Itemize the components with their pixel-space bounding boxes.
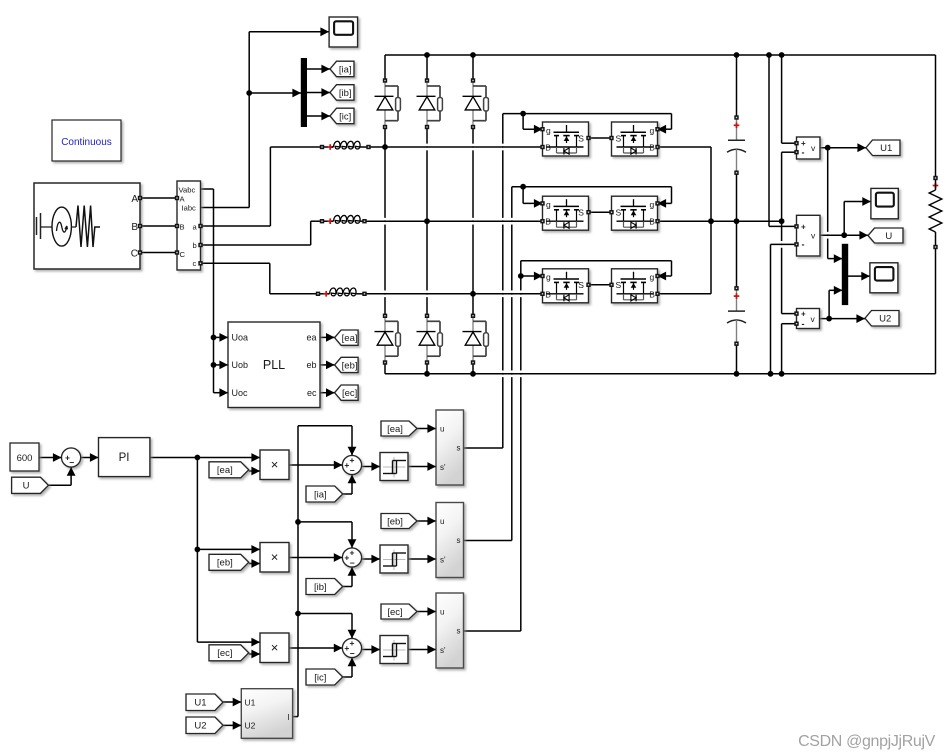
svg-text:U1: U1 (194, 698, 206, 709)
svg-text:+: + (344, 643, 349, 653)
svg-text:[eb]: [eb] (217, 558, 233, 569)
svg-text:s': s' (440, 463, 446, 472)
svg-text:[ec]: [ec] (387, 607, 402, 618)
svg-text:u: u (440, 608, 444, 617)
svg-text:×: × (271, 457, 279, 472)
svg-text:−: − (350, 466, 355, 476)
svg-text:+: + (350, 455, 355, 465)
svg-text:s: s (457, 444, 461, 453)
svg-text:[ea]: [ea] (342, 333, 358, 344)
svg-text:ec: ec (307, 388, 317, 398)
svg-text:[ec]: [ec] (217, 648, 232, 659)
svg-text:[ib]: [ib] (314, 582, 327, 593)
svg-text:B: B (131, 222, 138, 233)
svg-text:[ea]: [ea] (217, 465, 233, 476)
svg-text:S: S (616, 280, 622, 290)
svg-text:B: B (649, 217, 655, 227)
svg-text:+: + (344, 460, 349, 470)
svg-text:U: U (23, 481, 30, 492)
svg-text:[ic]: [ic] (339, 111, 351, 122)
svg-text:Vabc: Vabc (179, 185, 196, 194)
svg-text:U2: U2 (879, 314, 891, 325)
svg-text:g: g (546, 200, 551, 210)
svg-text:s': s' (440, 646, 446, 655)
svg-text:g: g (546, 272, 551, 282)
svg-text:U: U (885, 231, 892, 242)
svg-text:Iabc: Iabc (182, 204, 197, 213)
svg-text:U1: U1 (880, 143, 892, 154)
svg-text:+: + (801, 310, 806, 319)
svg-text:Continuous: Continuous (61, 137, 112, 148)
svg-text:A: A (131, 194, 138, 205)
svg-text:eb: eb (306, 360, 316, 370)
svg-text:+: + (344, 553, 349, 563)
svg-text:U2: U2 (194, 721, 206, 732)
svg-text:B: B (649, 289, 655, 299)
svg-text:Uoa: Uoa (232, 333, 249, 343)
svg-text:[eb]: [eb] (387, 516, 403, 527)
svg-text:b: b (193, 241, 197, 250)
svg-text:g: g (650, 125, 655, 135)
svg-text:S: S (578, 280, 584, 290)
svg-text:[ia]: [ia] (339, 64, 352, 75)
svg-text:S: S (578, 133, 584, 143)
svg-text:B: B (649, 143, 655, 153)
svg-text:[ea]: [ea] (387, 424, 403, 435)
svg-text:CSDN @gnpjJjRujV: CSDN @gnpjJjRujV (798, 733, 936, 750)
svg-text:-: - (802, 147, 805, 157)
svg-text:l: l (288, 712, 290, 722)
svg-text:[ib]: [ib] (339, 88, 352, 99)
svg-text:-: - (802, 240, 805, 250)
svg-text:[ec]: [ec] (342, 388, 357, 399)
svg-text:−: − (350, 558, 355, 568)
svg-text:ea: ea (306, 333, 316, 343)
svg-text:B: B (545, 289, 551, 299)
svg-text:[ic]: [ic] (314, 672, 326, 683)
svg-text:u: u (440, 425, 444, 434)
svg-text:[eb]: [eb] (342, 360, 358, 371)
svg-text:B: B (180, 222, 185, 231)
svg-text:S: S (616, 133, 622, 143)
svg-text:-: - (802, 319, 805, 329)
svg-text:u: u (440, 517, 444, 526)
svg-text:c: c (193, 259, 197, 268)
svg-text:×: × (271, 640, 279, 655)
svg-text:−: − (69, 458, 74, 468)
svg-text:s: s (457, 627, 461, 636)
svg-text:C: C (131, 249, 138, 260)
svg-text:600: 600 (17, 453, 33, 464)
svg-text:U2: U2 (245, 721, 256, 731)
svg-text:×: × (271, 549, 279, 564)
svg-text:[ia]: [ia] (314, 489, 327, 500)
svg-text:+: + (801, 222, 806, 231)
svg-text:S: S (616, 208, 622, 218)
svg-text:+: + (350, 638, 355, 648)
svg-text:g: g (650, 272, 655, 282)
svg-text:S: S (578, 208, 584, 218)
svg-text:B: B (545, 217, 551, 227)
svg-text:−: − (350, 649, 355, 659)
svg-text:Uob: Uob (232, 360, 249, 370)
svg-text:Uoc: Uoc (232, 388, 249, 398)
svg-text:g: g (546, 125, 551, 135)
svg-text:PI: PI (119, 452, 130, 464)
svg-text:C: C (180, 250, 186, 259)
svg-text:+: + (350, 547, 355, 557)
svg-text:B: B (545, 143, 551, 153)
svg-text:s': s' (440, 556, 446, 565)
svg-text:s: s (457, 536, 461, 545)
svg-text:U1: U1 (245, 697, 256, 707)
svg-text:PLL: PLL (263, 358, 285, 372)
svg-text:g: g (650, 200, 655, 210)
